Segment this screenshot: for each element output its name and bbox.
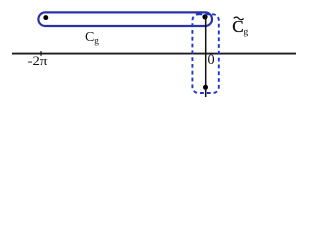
svg-text:g: g (243, 27, 248, 38)
svg-text:g: g (94, 36, 99, 46)
svg-text:C: C (85, 30, 94, 45)
label C~_g tilde (234, 17, 244, 20)
svg-text:-2π: -2π (28, 54, 48, 68)
axis (real line) (12, 53, 296, 55)
contour C_g (solid blue stadium) (38, 12, 212, 26)
node 0 top endpoint dot (202, 14, 207, 19)
wire vertical segment through 0 (205, 15, 207, 97)
svg-text:0: 0 (208, 52, 215, 68)
svg-text:C: C (232, 17, 243, 36)
node -2pi endpoint dot (43, 15, 48, 20)
tick at -2pi (40, 51, 42, 56)
contour C~_g (dashed blue rounded rect) (192, 14, 218, 93)
node bottom endpoint dot (203, 85, 208, 90)
